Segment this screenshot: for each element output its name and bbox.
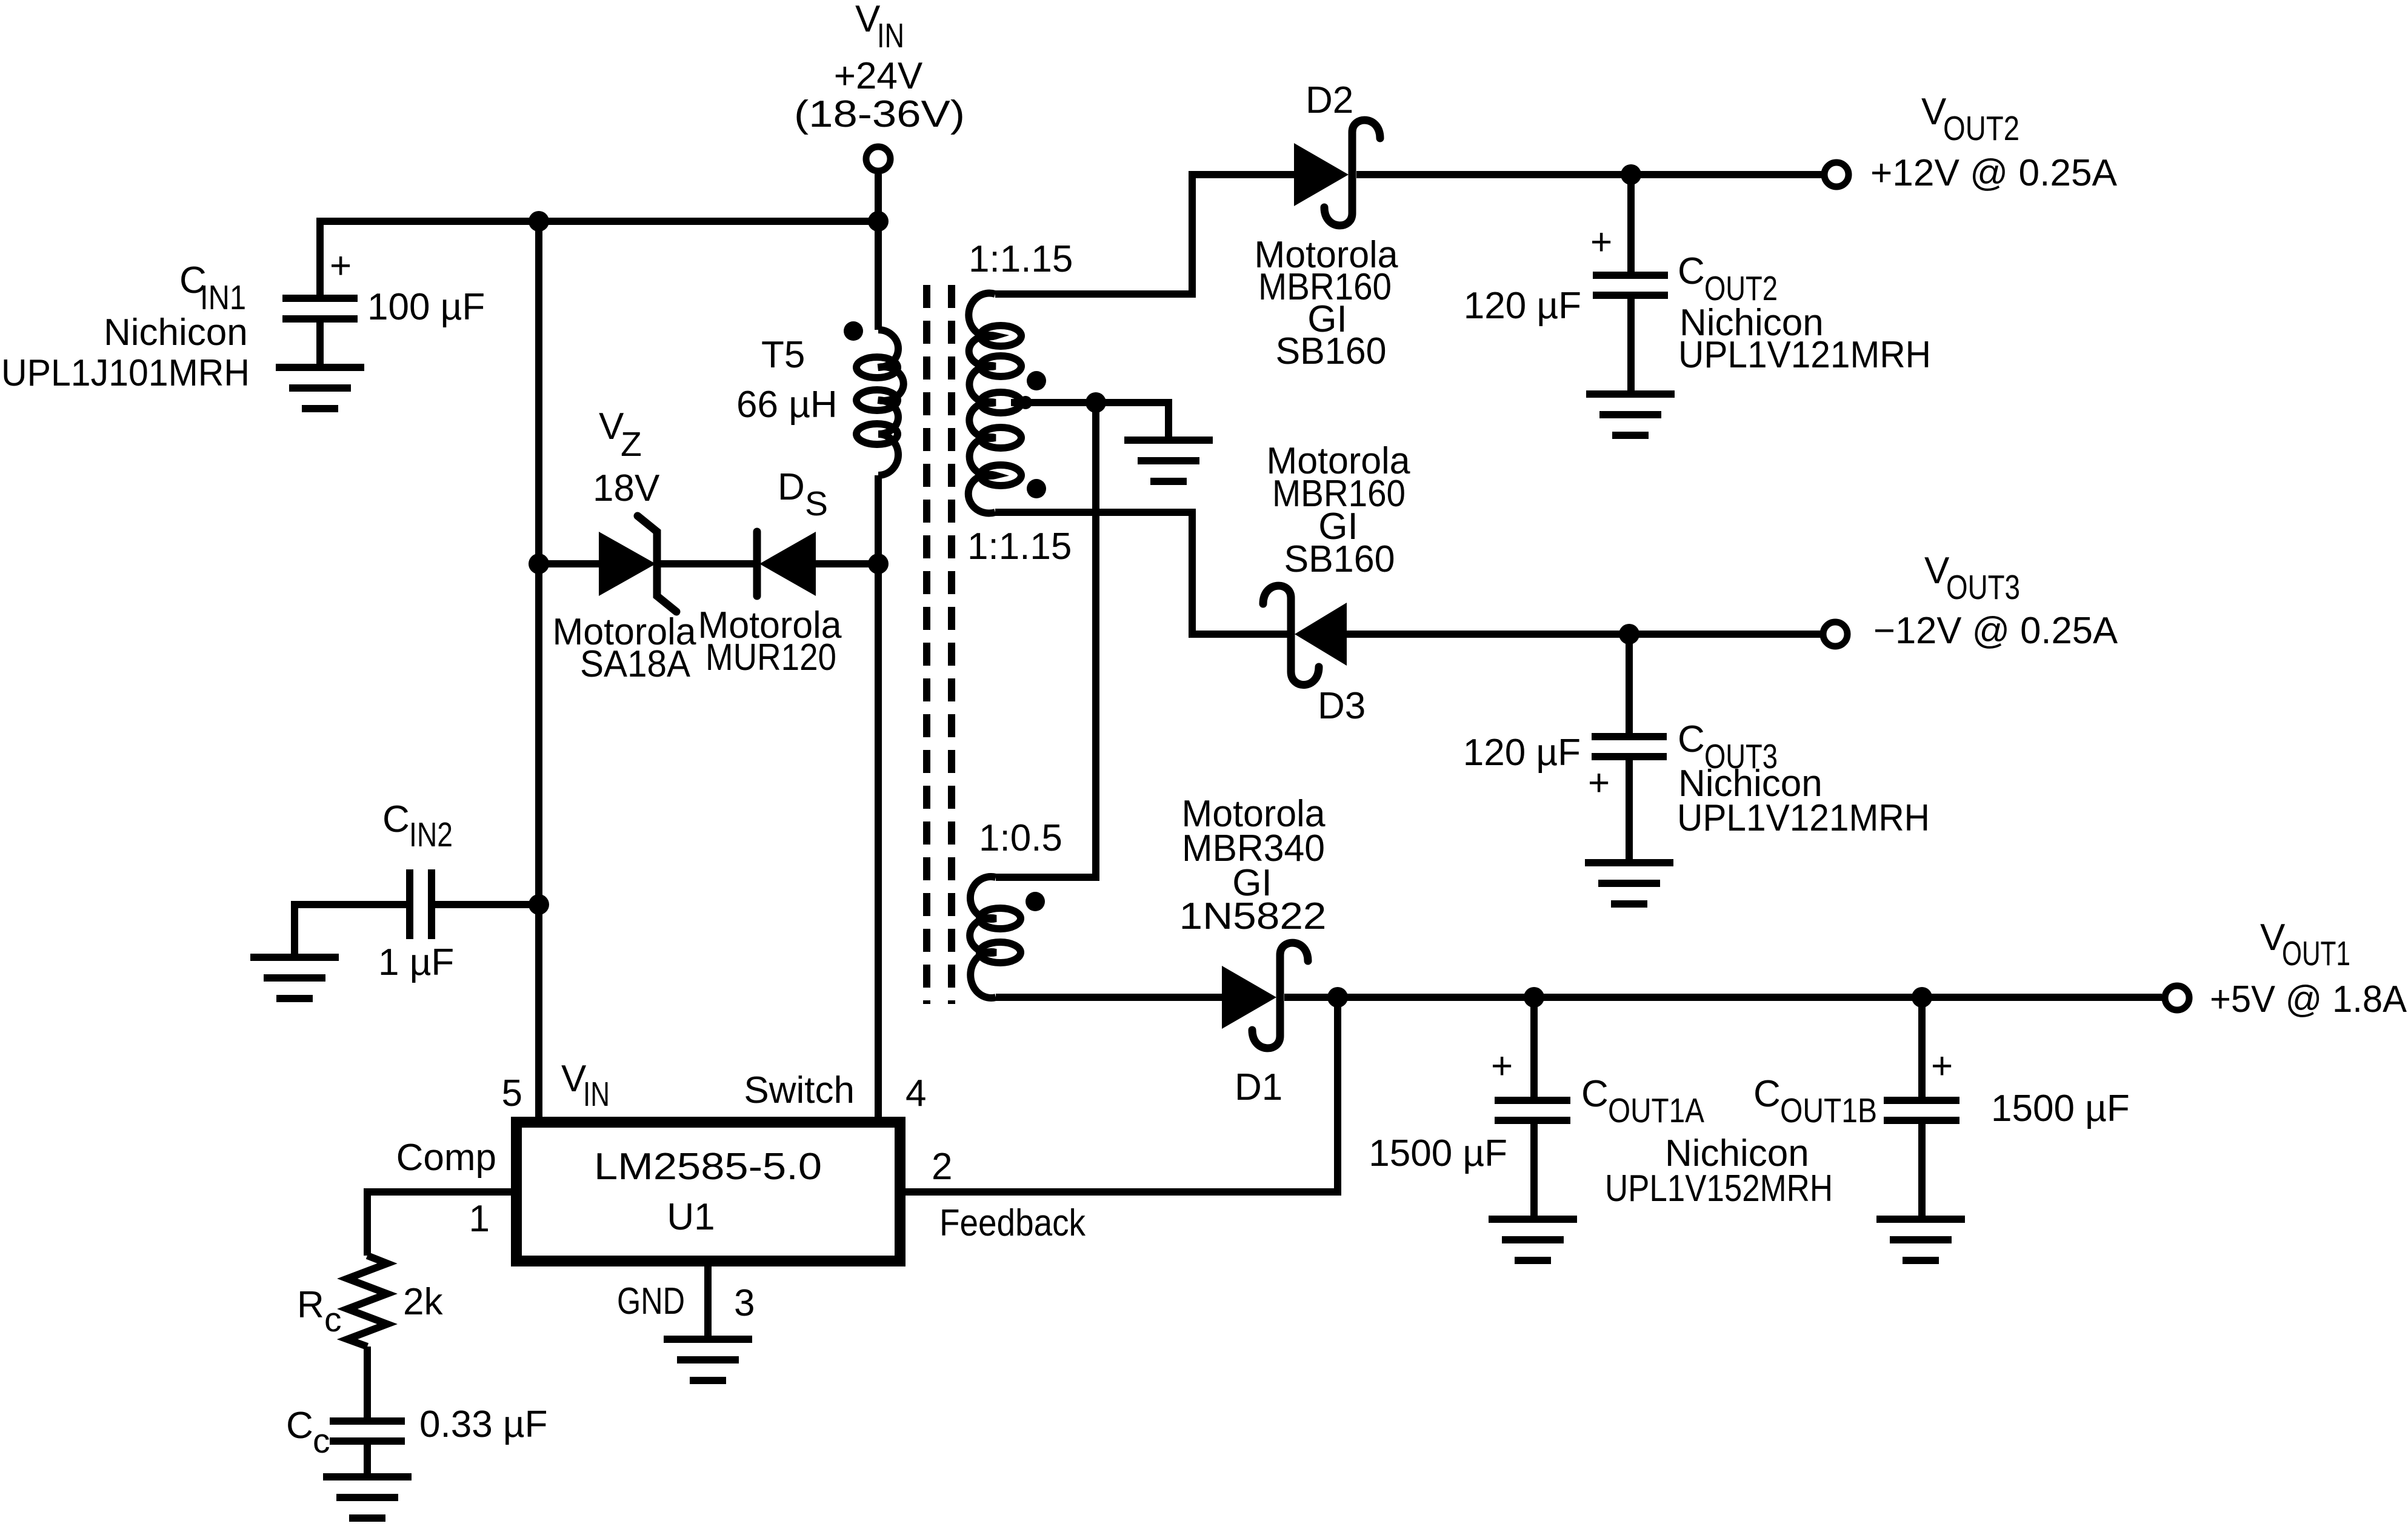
label COUT3 Nichicon UPL1V121MRH: [1677, 718, 1930, 839]
svg-text:Nichicon: Nichicon: [104, 312, 248, 353]
capacitor CC: [330, 1421, 405, 1477]
svg-text:SB160: SB160: [1284, 538, 1395, 580]
label RC: [297, 1284, 342, 1339]
node COUT1A junction: [1524, 987, 1544, 1008]
transformer core: [927, 285, 952, 1004]
label Motorola SA18A: [553, 611, 697, 685]
label COUT1A: [1581, 1073, 1704, 1130]
svg-text:120 µF: 120 µF: [1463, 732, 1581, 774]
center tap wire to ground: [1011, 403, 1169, 440]
node rail junction B: [868, 211, 889, 232]
svg-text:Switch: Switch: [744, 1069, 855, 1111]
svg-text:D2: D2: [1306, 79, 1353, 121]
transformer T5 secondary winding C: [970, 877, 1021, 998]
svg-text:C: C: [382, 798, 410, 840]
node COUT2 junction: [1621, 164, 1641, 185]
svg-text:0.33 µF: 0.33 µF: [419, 1404, 548, 1445]
ground below COUT1A: [1489, 1219, 1577, 1260]
ground below COUT2: [1586, 394, 1675, 435]
svg-text:D1: D1: [1235, 1066, 1282, 1108]
svg-text:OUT2: OUT2: [1943, 109, 2019, 148]
terminal VIN input: [866, 147, 890, 171]
svg-text:120 µF: 120 µF: [1464, 285, 1581, 327]
svg-text:+: +: [330, 245, 352, 287]
node feedback junction: [1327, 987, 1348, 1008]
svg-text:3: 3: [734, 1282, 755, 1324]
wire winding C to D1: [996, 994, 1222, 1001]
resistor RC 2k: [347, 1256, 387, 1347]
svg-text:100 µF: 100 µF: [367, 286, 485, 328]
svg-text:D3: D3: [1318, 685, 1366, 727]
wire DS to switch column: [816, 560, 878, 567]
svg-text:IN: IN: [583, 1075, 610, 1114]
svg-text:18V: 18V: [593, 467, 660, 509]
capacitor COUT1B: [1884, 997, 1959, 1219]
capacitor COUT3: [1588, 634, 1667, 863]
label Nichicon UPL1V152MRH: [1605, 1133, 1833, 1209]
label Motorola MUR120: [698, 604, 842, 678]
ground below COUT3: [1585, 863, 1673, 904]
svg-text:C: C: [1753, 1073, 1781, 1115]
capacitor COUT1A: [1491, 997, 1570, 1219]
phase dot secondary A: [1027, 371, 1046, 390]
zener diode VZ: [599, 516, 676, 612]
ground center tap: [1124, 440, 1213, 481]
wire secondary B to D3: [995, 512, 1287, 634]
wire left column rail to U1 pin 5: [535, 221, 542, 1122]
svg-text:Feedback: Feedback: [939, 1202, 1086, 1244]
svg-text:66 µH: 66 µH: [736, 384, 838, 426]
svg-text:−12V @ 0.25A: −12V @ 0.25A: [1873, 610, 2118, 652]
diode D1: [1222, 943, 1308, 1048]
node tap at winding: [1019, 396, 1032, 409]
svg-text:IN2: IN2: [409, 815, 453, 854]
svg-text:+24V: +24V: [834, 55, 923, 97]
wire VZ to DS: [661, 560, 757, 567]
svg-text:c: c: [324, 1300, 342, 1339]
wire 5V rail: [1284, 994, 2162, 1001]
svg-text:+: +: [1491, 1045, 1513, 1087]
phase dot secondary B: [1027, 479, 1046, 498]
svg-text:C: C: [1581, 1073, 1609, 1115]
wire to VZ anode: [539, 560, 599, 567]
wire D3 to VOUT3: [1347, 631, 1822, 638]
label VOUT1: [2210, 917, 2407, 1020]
label Motorola MBR340 GI 1N5822: [1179, 793, 1327, 937]
svg-text:Z: Z: [621, 425, 642, 464]
svg-text:C: C: [286, 1405, 313, 1447]
svg-text:D: D: [778, 466, 805, 508]
label VOUT3: [1873, 550, 2118, 652]
node junction switch node: [868, 554, 889, 574]
diode D3: [1263, 586, 1347, 684]
label VZ 18V: [593, 406, 660, 509]
wire Feedback pin 2 to 5V rail: [900, 997, 1338, 1192]
svg-text:2: 2: [932, 1146, 952, 1188]
svg-text:+: +: [1588, 762, 1610, 804]
svg-text:LM2585-5.0: LM2585-5.0: [594, 1146, 822, 1188]
wire RC to CC: [364, 1347, 371, 1421]
svg-text:1:1.15: 1:1.15: [969, 238, 1073, 280]
node VIN label: [794, 0, 965, 135]
svg-text:5: 5: [502, 1072, 522, 1114]
svg-text:c: c: [313, 1422, 330, 1460]
svg-text:2k: 2k: [403, 1281, 443, 1323]
svg-text:1500 µF: 1500 µF: [1991, 1088, 2130, 1129]
ground below CC: [323, 1477, 412, 1518]
svg-text:1:0.5: 1:0.5: [979, 817, 1062, 859]
terminal VOUT1: [2165, 986, 2189, 1010]
wire input rail: [320, 221, 878, 298]
svg-text:IN: IN: [877, 16, 904, 55]
svg-text:+: +: [1590, 221, 1612, 263]
svg-text:OUT1: OUT1: [2282, 934, 2350, 973]
svg-text:U1: U1: [667, 1196, 715, 1238]
svg-text:C: C: [1678, 718, 1705, 760]
svg-text:(18-36V): (18-36V): [794, 93, 965, 135]
label CIN2: [382, 798, 453, 854]
svg-text:+5V @ 1.8A: +5V @ 1.8A: [2210, 979, 2407, 1020]
wire center tap down to winding C: [996, 403, 1096, 877]
label Motorola MBR160 GI SB160 (D2): [1255, 234, 1399, 372]
wire primary bottom to U1 pin 4: [875, 475, 882, 1122]
svg-text:OUT3: OUT3: [1946, 568, 2020, 607]
ground U1 GND: [664, 1339, 752, 1380]
svg-text:GND: GND: [617, 1280, 685, 1322]
svg-text:OUT1B: OUT1B: [1780, 1091, 1877, 1130]
svg-text:R: R: [297, 1284, 324, 1326]
svg-text:S: S: [805, 484, 828, 523]
svg-text:C: C: [1678, 250, 1705, 292]
node COUT1B junction: [1912, 987, 1932, 1008]
svg-text:SB160: SB160: [1276, 330, 1387, 372]
svg-text:+12V @ 0.25A: +12V @ 0.25A: [1870, 152, 2118, 194]
pin 3 GND label: [617, 1280, 755, 1324]
label DS: [778, 466, 828, 523]
label COUT2 Nichicon UPL1V121MRH: [1678, 250, 1931, 376]
wire D2 to VOUT2: [1356, 171, 1823, 178]
svg-text:+: +: [1931, 1045, 1953, 1087]
diode DS: [757, 532, 816, 596]
svg-text:T5: T5: [761, 334, 805, 376]
wire secondary A top to D2: [995, 175, 1294, 294]
svg-text:4: 4: [906, 1072, 926, 1114]
terminal VOUT3: [1823, 622, 1847, 646]
node COUT3 junction: [1619, 624, 1639, 644]
svg-text:UPL1V152MRH: UPL1V152MRH: [1605, 1168, 1833, 1209]
diode D2: [1294, 120, 1380, 226]
node junction VZ row left: [529, 554, 549, 574]
svg-text:OUT1A: OUT1A: [1608, 1091, 1704, 1130]
label COUT1B: [1753, 1073, 1877, 1130]
wire VIN terminal to rail: [875, 174, 882, 221]
phase dot secondary C: [1026, 892, 1045, 911]
svg-text:1:1.15: 1:1.15: [967, 526, 1072, 567]
op-amp U1 LM2585-5.0 box: [516, 1122, 900, 1261]
pin 2 Feedback label: [932, 1146, 1086, 1244]
svg-text:1500 µF: 1500 µF: [1369, 1133, 1507, 1174]
ground below CIN1: [276, 367, 364, 409]
svg-text:1N5822: 1N5822: [1179, 895, 1327, 937]
wire Comp pin 1: [367, 1192, 516, 1256]
svg-text:UPL1J101MRH: UPL1J101MRH: [1, 352, 250, 394]
node center tap junction: [1086, 392, 1106, 413]
svg-text:Comp: Comp: [396, 1137, 496, 1179]
node rail junction A: [529, 211, 549, 232]
svg-text:UPL1V121MRH: UPL1V121MRH: [1678, 334, 1931, 376]
wire rail to primary top: [875, 221, 882, 330]
svg-text:MUR120: MUR120: [705, 637, 836, 678]
node CIN2 junction: [529, 894, 549, 915]
ground below COUT1B: [1876, 1219, 1965, 1260]
svg-text:1: 1: [469, 1198, 490, 1240]
svg-text:SA18A: SA18A: [580, 643, 691, 685]
svg-text:UPL1V121MRH: UPL1V121MRH: [1677, 797, 1930, 839]
svg-text:1 µF: 1 µF: [378, 942, 454, 983]
label VOUT2: [1870, 91, 2118, 194]
transformer T5 primary winding: [856, 330, 904, 475]
label CIN1 Nichicon UPL1J101MRH: [1, 259, 250, 394]
capacitor CIN1: [282, 245, 358, 367]
label Motorola MBR160 GI SB160 (D3): [1267, 440, 1411, 580]
ground below CIN2: [250, 957, 339, 999]
capacitor CIN2: [295, 869, 539, 957]
terminal VOUT2: [1824, 162, 1849, 187]
label T5 66 uH: [736, 334, 838, 426]
pin 1 Comp label: [396, 1137, 496, 1240]
capacitor COUT2: [1590, 175, 1668, 394]
transformer T5 secondary winding A/B: [969, 293, 1021, 514]
phase dot primary: [844, 321, 863, 341]
label CC: [286, 1405, 330, 1460]
pin 5 VIN label: [502, 1058, 610, 1114]
pin 4 Switch label: [744, 1069, 926, 1114]
wire U1 pin 3 to ground: [704, 1261, 712, 1339]
